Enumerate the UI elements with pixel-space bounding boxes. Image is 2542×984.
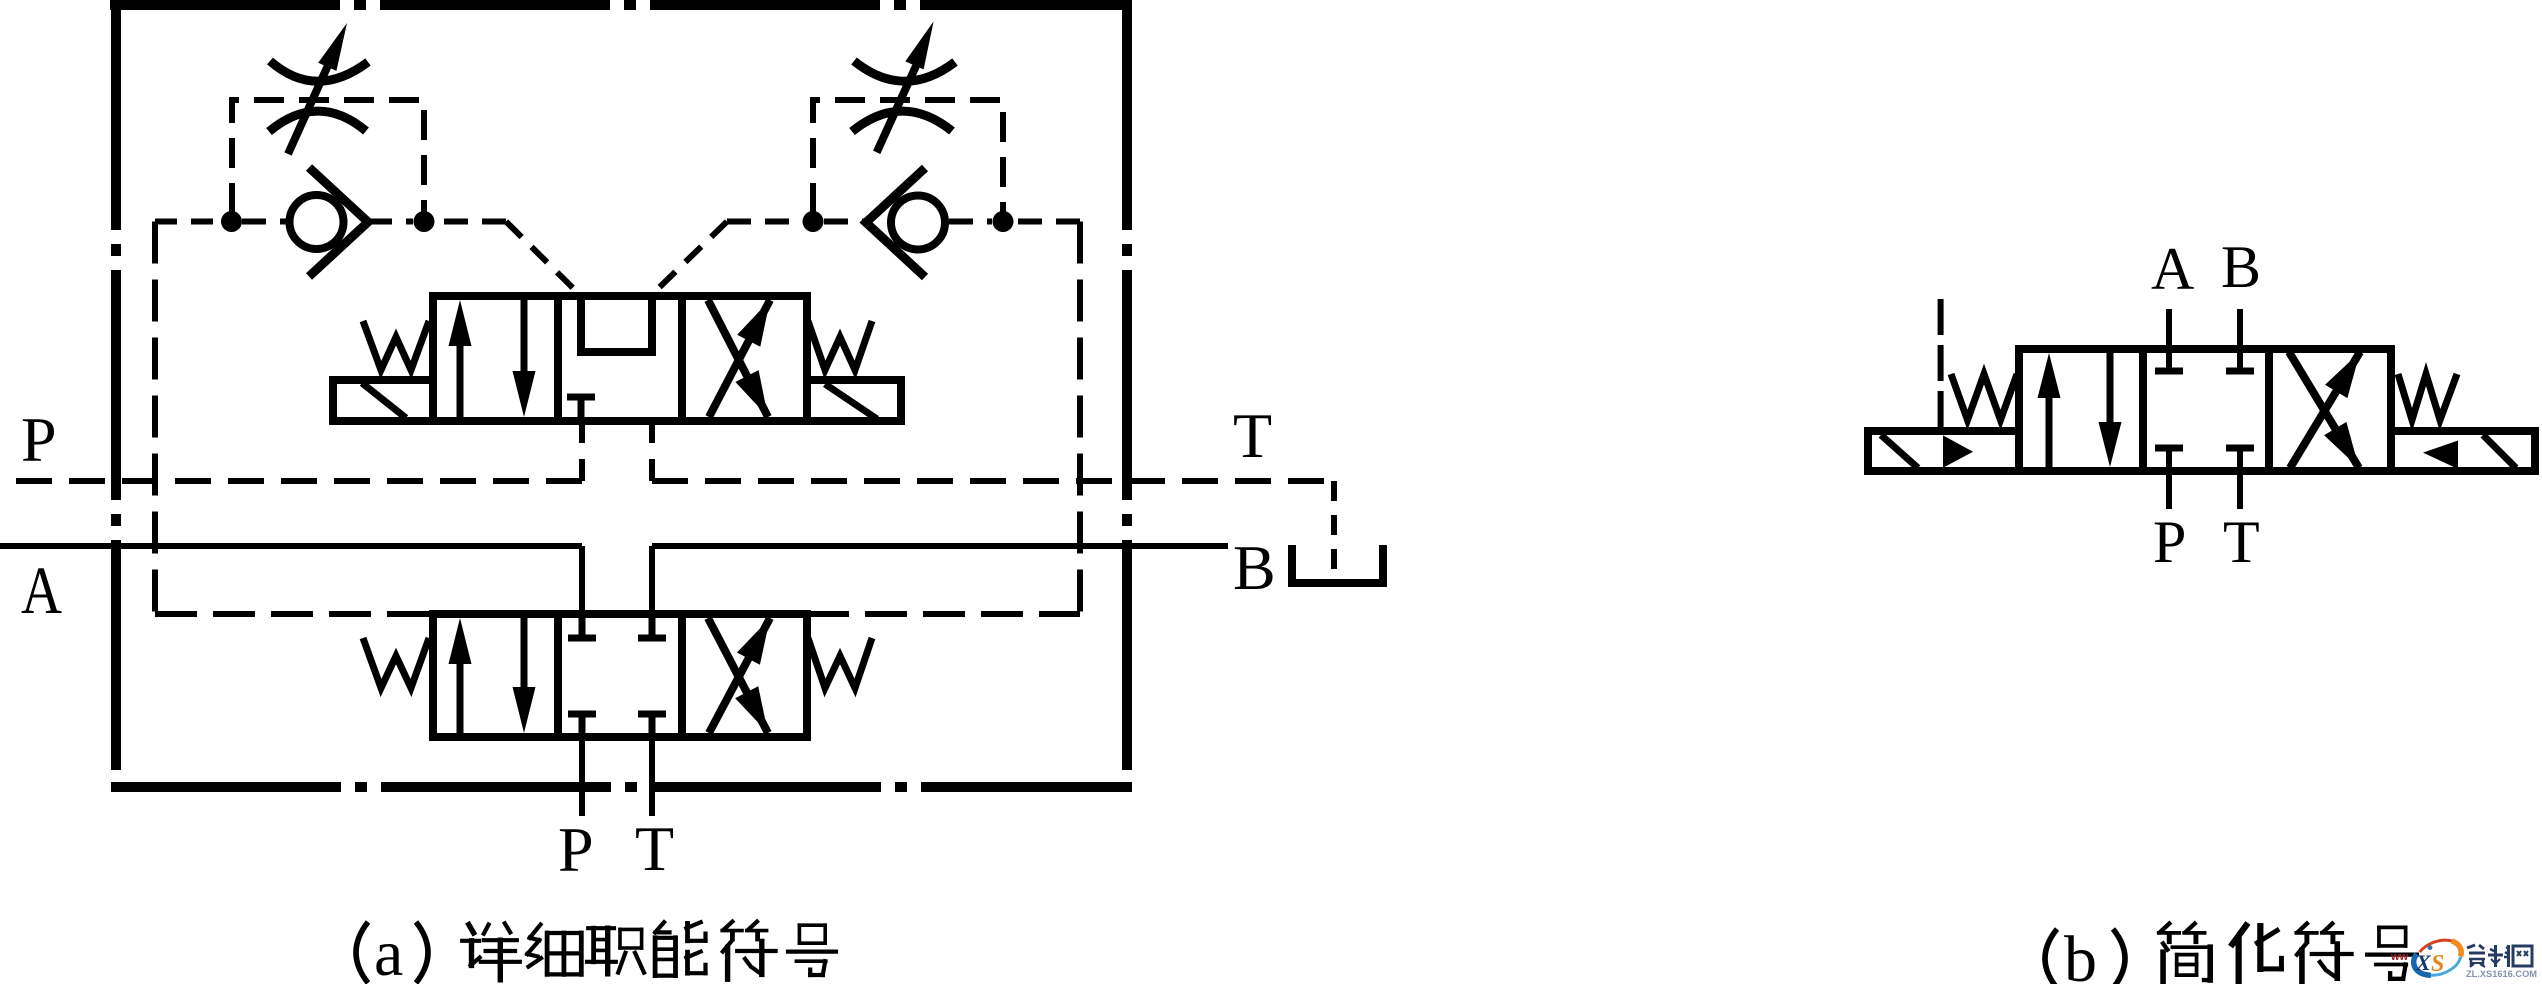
port B stem [2237, 309, 2243, 369]
pilot valve U1 center cell blocked port bar [567, 394, 595, 401]
main valve U2 blocked port B stem [649, 618, 656, 635]
port P blocked bar [2155, 445, 2183, 452]
main valve U2 left cell down-arrow [513, 618, 536, 733]
svg-text:X: X [2415, 950, 2432, 975]
enclosure border bottom (chain line) [111, 782, 1132, 792]
pilot valve U1 right cell arrowhead down [735, 370, 768, 417]
main valve U2 blocked port B bar [638, 635, 666, 642]
main valve U2 blocked port P bar [568, 711, 596, 718]
check valve CV1 seat [309, 168, 368, 277]
main valve U2 blocked port A bar [568, 635, 596, 642]
pilot valve U1 left cell up-arrow [449, 300, 472, 417]
throttle valve V1 upper arc [270, 61, 368, 81]
svg-text:P: P [558, 814, 594, 885]
wire pilot P port stub (dashed) [579, 422, 585, 481]
solenoid Y4 right box [2391, 431, 2535, 471]
wire pilot line to J1 [155, 219, 221, 225]
pilot dashed box right edge [1077, 222, 1083, 615]
port B blocked bar [2226, 368, 2254, 375]
throttle valve V2 upper arc [854, 61, 955, 81]
solenoid Y1 left box [333, 380, 433, 421]
pilot dashed box left edge [152, 222, 158, 615]
main valve U2 blocked port T stem [649, 717, 656, 733]
main valve U2 blocked port T bar [638, 711, 666, 718]
main valve U2 right cell arrow line [709, 618, 770, 733]
solenoid Y2 diagonal [825, 384, 877, 419]
wire A line [0, 543, 582, 549]
wire B line riser [649, 546, 655, 618]
port A stem [2166, 309, 2172, 369]
caption (a) detailed functional symbol [356, 917, 836, 984]
svg-text:A: A [21, 552, 62, 628]
wire main valve T port [649, 737, 655, 816]
wire diagonal to pilot valve port A1 [506, 222, 580, 296]
simplified valve U3 cell divider 2 [2265, 349, 2273, 471]
wire J3 to CV2 [824, 219, 866, 225]
throttle valve V2 lower arc [852, 111, 952, 131]
port P stem [2166, 450, 2172, 509]
wire A line drop to main valve [579, 546, 585, 618]
junction node J2 [414, 211, 435, 232]
pilot valve U1 right cell arrow line [709, 300, 770, 417]
spring W2 right [808, 321, 872, 370]
spring W4 right [808, 638, 872, 688]
wire J4 to pilot box corner [1014, 219, 1080, 225]
wire pilot T port stub (dashed) [649, 422, 655, 481]
solenoid Y1 diagonal [362, 383, 406, 418]
enclosure border left (chain line) [111, 0, 121, 792]
svg-text:T: T [635, 813, 674, 884]
throttle valve V1 dashed bypass box [232, 100, 424, 213]
solenoid Y3 diagonal [1881, 435, 1918, 468]
throttle valve V2 dashed bypass box [813, 100, 1003, 213]
port T stem [2237, 450, 2243, 509]
check valve CV1 ball [290, 195, 344, 249]
pilot valve U1 center cell blocked port stem [578, 399, 585, 417]
wire CV2 to J4 [949, 219, 992, 225]
valve baseline [1864, 467, 2539, 475]
pilot valve U1 right cell cross line [708, 300, 768, 417]
simplified valve U3 cell divider 1 [2139, 349, 2147, 471]
main valve U2 right cell arrowhead up [737, 618, 770, 665]
simplified valve U3 right cell cross line [2289, 352, 2359, 468]
wire main valve P port [579, 737, 585, 816]
simplified valve U3 left cell up-arrow [2038, 353, 2061, 467]
check valve CV2 seat [866, 168, 925, 277]
solenoid Y3 left box [1868, 431, 2019, 471]
wire CV1 to J2 [368, 219, 413, 225]
spring W6 right [2398, 374, 2457, 420]
svg-text:b: b [2064, 923, 2097, 984]
wire T line (dashed) [652, 478, 1334, 484]
solenoid Y4 pilot triangle [2423, 441, 2458, 470]
main valve U2 body [433, 614, 807, 737]
wire J2 to bend [434, 219, 506, 225]
pilot valve U1 center cell U-connection [581, 300, 652, 352]
solenoid Y2 right box [807, 380, 901, 421]
main valve U2 right cell arrowhead down [735, 686, 768, 733]
pilot dashed box bottom edge left part [155, 611, 433, 617]
svg-text:ww: ww [2390, 951, 2409, 963]
pilot dashed box bottom edge right part [807, 611, 1080, 617]
svg-text:P: P [21, 404, 57, 475]
wire bend to J3 [727, 219, 802, 225]
simplified valve U3 right cell arrow line [2290, 352, 2360, 468]
solenoid Y3 pilot triangle [1943, 435, 1973, 467]
enclosure border right (chain line) [1122, 0, 1132, 792]
main valve U2 blocked port P stem [579, 717, 586, 733]
wire T line drop to tank (dashed) [1331, 481, 1337, 572]
main valve U2 cell divider 1 [554, 614, 562, 737]
junction node J3 [803, 211, 824, 232]
main valve U2 left cell up-arrow [449, 618, 472, 733]
spring W3 left [363, 638, 429, 688]
solenoid Y4 diagonal [2483, 435, 2516, 468]
check valve CV2 ball [891, 196, 945, 250]
svg-text:ZL.XS1616.COM: ZL.XS1616.COM [2466, 969, 2537, 979]
main valve U2 blocked port A stem [579, 618, 586, 635]
svg-text:P: P [2153, 509, 2186, 575]
spring W5 left [1951, 374, 2017, 420]
pilot valve U1 left cell down-arrow [513, 300, 536, 417]
port A blocked bar [2155, 368, 2183, 375]
svg-text:a: a [374, 917, 403, 984]
pilot valve U1 cell divider 2 [678, 296, 686, 421]
simplified valve U3 left cell down-arrow [2099, 353, 2122, 467]
svg-text:T: T [2223, 509, 2260, 575]
simplified valve U3 body [2019, 349, 2391, 471]
throttle valve V2 adjustment arrow [877, 21, 934, 152]
pilot valve U1 body [433, 296, 807, 421]
svg-text:T: T [1233, 400, 1272, 471]
simplified valve U3 right cell arrowhead up [2325, 352, 2360, 398]
wire J1 to CV1 [242, 219, 289, 225]
simplified valve U3 right cell arrowhead down [2324, 422, 2359, 468]
pilot valve U1 cell divider 1 [554, 296, 562, 421]
wire B line [652, 543, 1228, 549]
port T blocked bar [2226, 445, 2254, 452]
wire diagonal to pilot valve port B1 [652, 222, 728, 296]
external pilot dashed line [1938, 299, 1944, 431]
tank symbol [1292, 545, 1383, 583]
enclosure border top (chain line) [110, 0, 1127, 10]
junction node J1 [221, 211, 242, 232]
svg-text:S: S [2431, 951, 2444, 977]
throttle valve V1 lower arc [269, 111, 366, 131]
main valve U2 cell divider 2 [678, 614, 686, 737]
svg-text:B: B [1233, 532, 1276, 603]
pilot valve U1 right cell arrowhead up [737, 300, 770, 347]
spring W1 left [363, 321, 429, 370]
svg-text:B: B [2221, 234, 2261, 300]
wire P line (dashed) [0, 478, 582, 484]
junction node J4 [993, 211, 1014, 232]
throttle valve V1 adjustment arrow [288, 23, 347, 154]
watermark logo [2390, 935, 2537, 981]
caption (b) simplified symbol [2045, 923, 2417, 984]
svg-text:A: A [2151, 236, 2194, 302]
main valve U2 right cell cross line [708, 618, 768, 733]
